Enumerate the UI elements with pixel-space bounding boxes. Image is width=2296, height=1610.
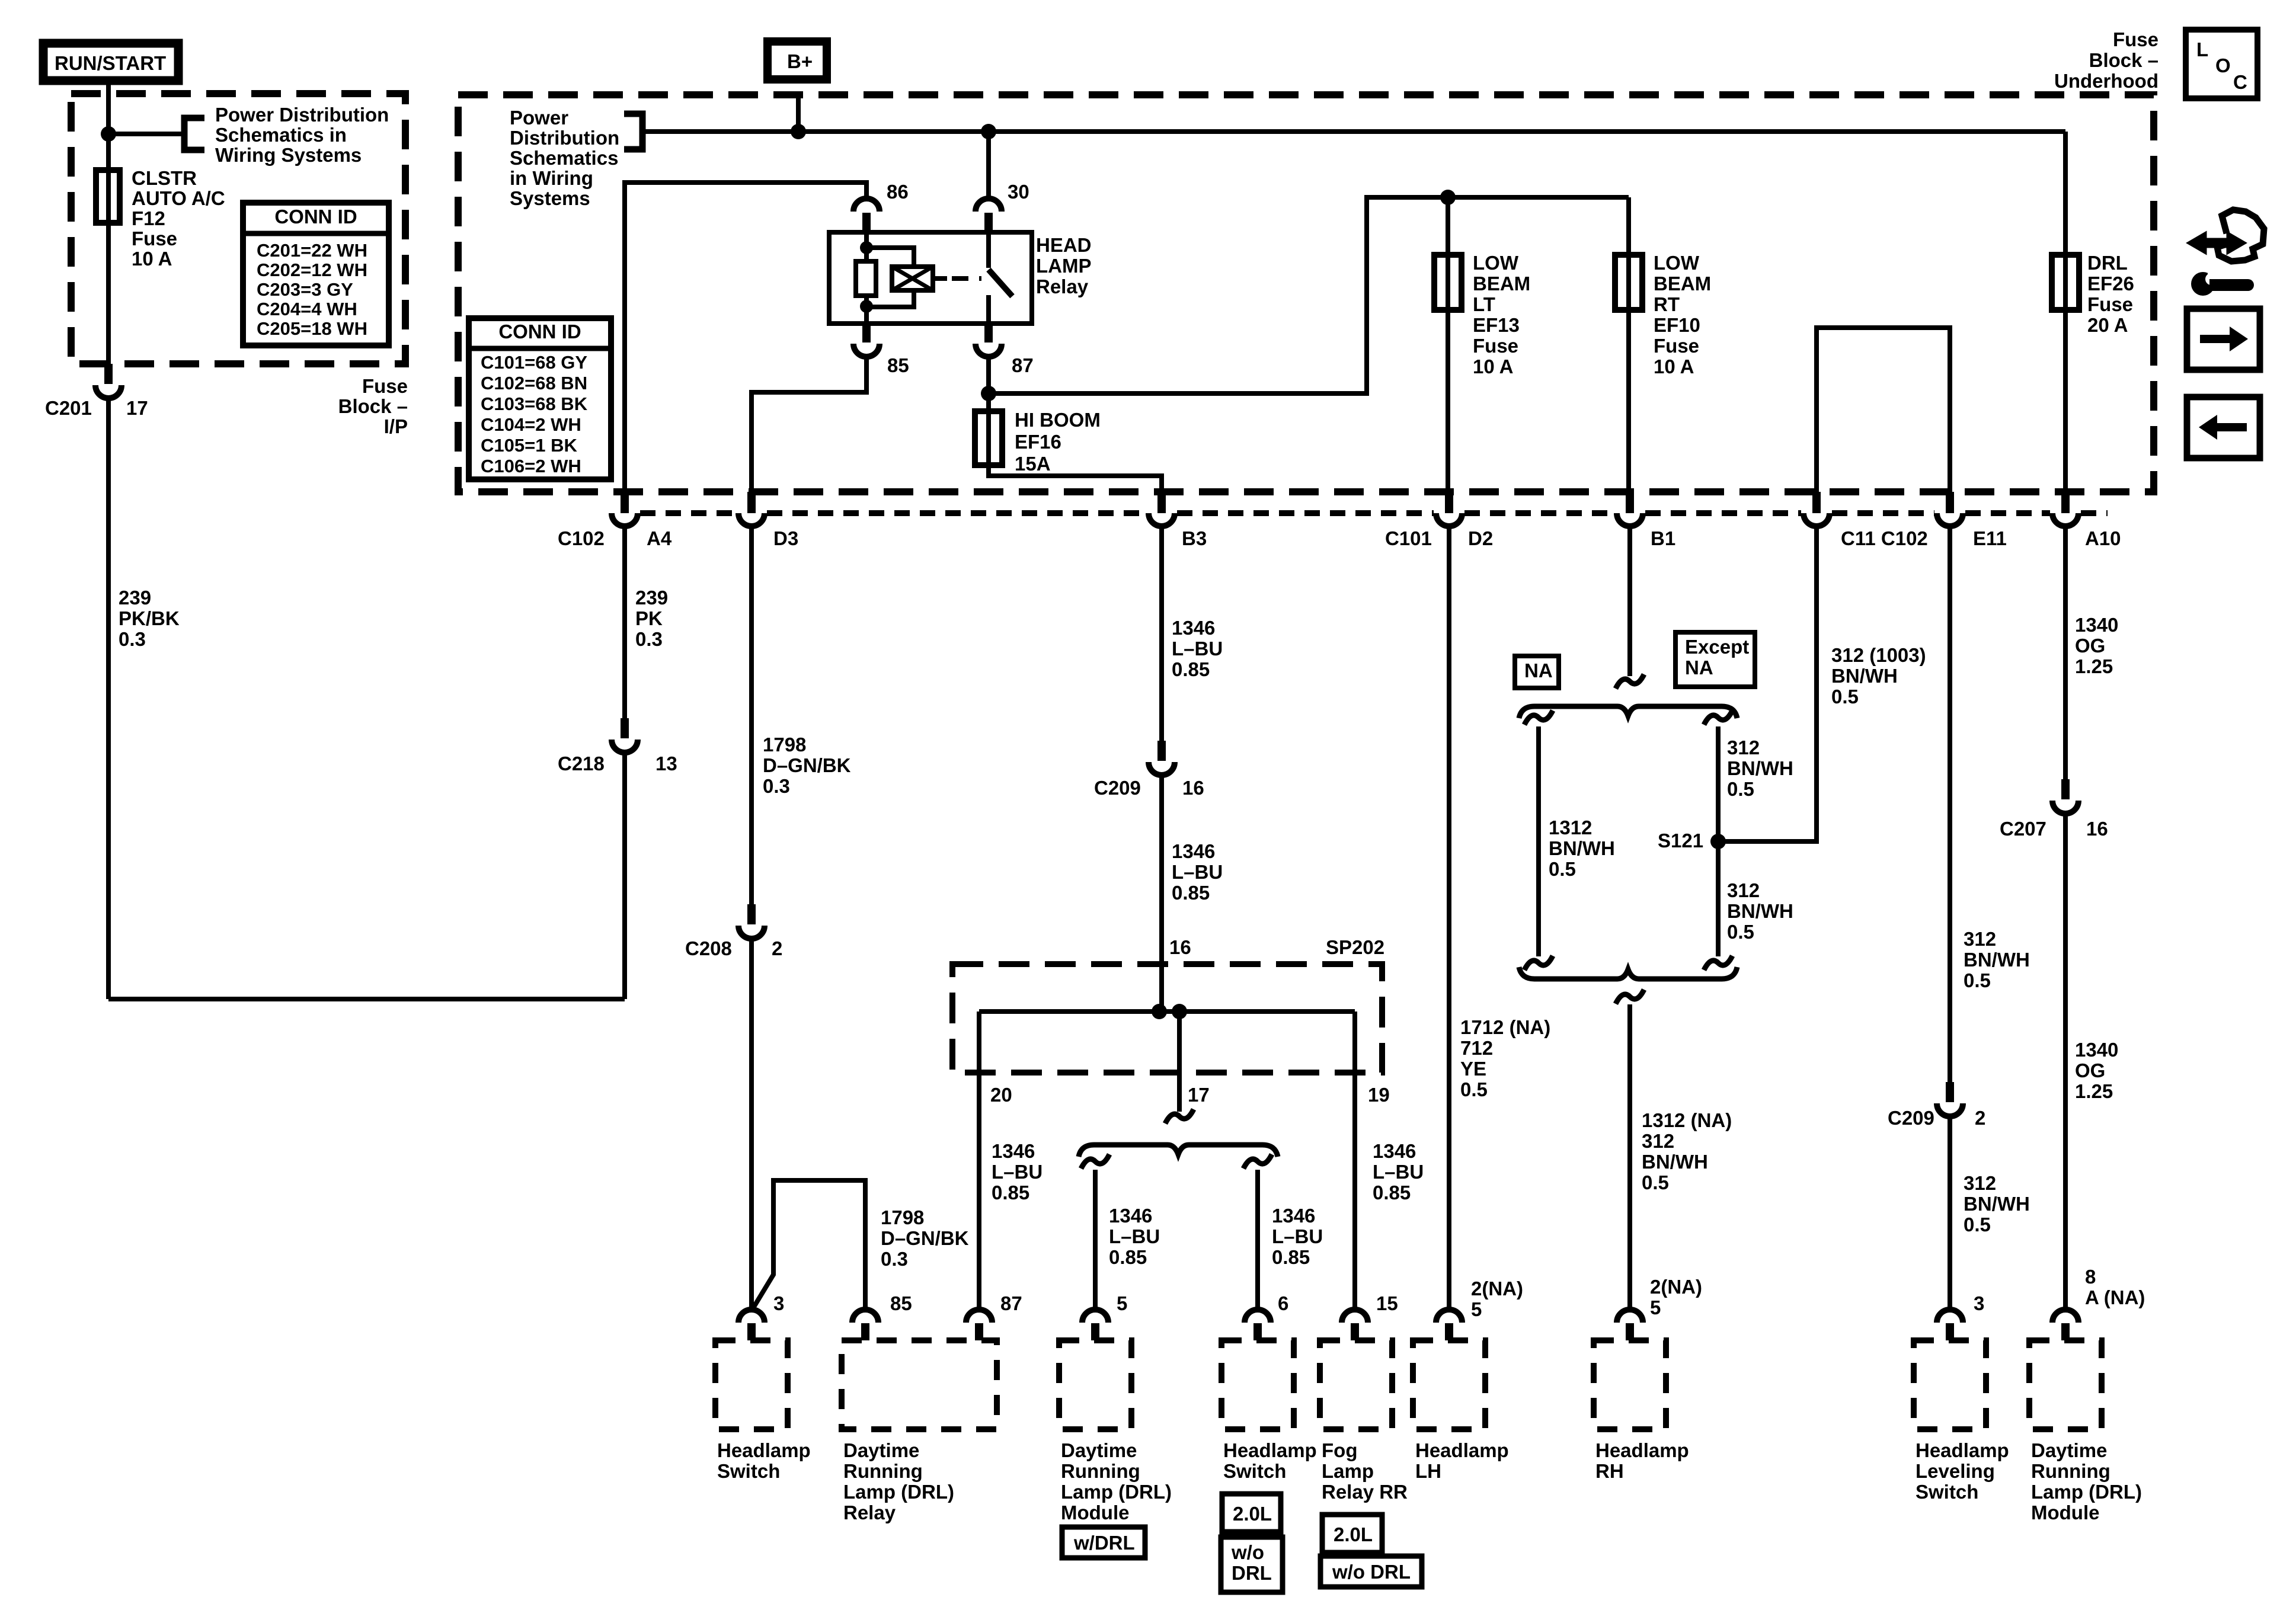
relay pin 86 xyxy=(853,199,880,212)
svg-text:10 A: 10 A xyxy=(132,248,172,270)
svg-text:F12: F12 xyxy=(132,207,165,229)
svg-text:Relay: Relay xyxy=(1036,276,1089,297)
svg-text:Headlamp: Headlamp xyxy=(1916,1439,2009,1461)
svg-text:1.25: 1.25 xyxy=(2075,1080,2113,1102)
svg-text:2: 2 xyxy=(772,937,782,959)
svg-text:0.5: 0.5 xyxy=(1964,969,1991,991)
svg-text:S121: S121 xyxy=(1658,830,1703,852)
svg-text:D2: D2 xyxy=(1468,527,1493,549)
connector fog lamp relay pin 15 xyxy=(1342,1310,1368,1323)
svg-text:PK/BK: PK/BK xyxy=(119,607,180,629)
fuse LOW BEAM LT EF13 10A xyxy=(1446,197,1450,255)
connector C207 pin 16 xyxy=(2061,779,2070,799)
svg-text:C105=1 BK: C105=1 BK xyxy=(481,435,577,456)
svg-text:EF16: EF16 xyxy=(1015,431,1061,453)
svg-text:C218: C218 xyxy=(558,753,605,774)
svg-text:Running: Running xyxy=(1061,1460,1140,1482)
svg-text:C11 C102: C11 C102 xyxy=(1841,527,1928,549)
connector headlamp RH pins 2/5 xyxy=(1617,1310,1643,1323)
svg-text:C208: C208 xyxy=(685,937,732,959)
svg-text:OG: OG xyxy=(2075,635,2105,657)
svg-text:0.85: 0.85 xyxy=(1172,658,1210,680)
svg-text:Module: Module xyxy=(2031,1502,2099,1523)
svg-text:712: 712 xyxy=(1460,1037,1493,1059)
option tag 2.0L (headlamp switch) xyxy=(1222,1494,1281,1532)
component Headlamp Switch 2 box xyxy=(1221,1340,1294,1429)
junction in fuse block I/P xyxy=(101,126,116,142)
svg-text:Fuse: Fuse xyxy=(2113,28,2159,50)
wire B+ feed xyxy=(796,92,801,132)
svg-text:312: 312 xyxy=(1642,1130,1674,1152)
svg-text:1312: 1312 xyxy=(1549,817,1592,838)
svg-text:C103=68 BK: C103=68 BK xyxy=(481,393,588,414)
svg-text:C209: C209 xyxy=(1094,777,1141,799)
svg-text:0.3: 0.3 xyxy=(119,628,146,650)
svg-text:LH: LH xyxy=(1415,1460,1441,1482)
svg-text:0.3: 0.3 xyxy=(635,628,663,650)
connector row harness line xyxy=(640,510,736,516)
svg-text:1346: 1346 xyxy=(1373,1140,1416,1162)
connector pin A10 xyxy=(2061,492,2070,513)
connector leveling switch pin 3 xyxy=(1937,1310,1963,1323)
connector DRL module pin 8/A xyxy=(2052,1310,2078,1323)
fuse F12 CLSTR AUTO A/C 10A xyxy=(106,170,111,223)
svg-text:C106=2 WH: C106=2 WH xyxy=(481,456,581,476)
svg-text:0.5: 0.5 xyxy=(1727,921,1754,943)
svg-text:0.5: 0.5 xyxy=(1549,858,1576,880)
wire 239 PK 0.3 riser xyxy=(622,753,627,999)
svg-text:CONN ID: CONN ID xyxy=(498,321,581,343)
svg-text:B1: B1 xyxy=(1651,527,1675,549)
wire RT fuse to connector B1 xyxy=(1626,310,1631,493)
wire 1798 D-GN/BK lower xyxy=(749,937,754,1311)
svg-text:PK: PK xyxy=(635,607,663,629)
icon arrow left box xyxy=(2187,397,2260,458)
svg-text:C102: C102 xyxy=(558,527,605,549)
svg-text:0.3: 0.3 xyxy=(763,775,790,797)
svg-text:EF10: EF10 xyxy=(1654,314,1700,336)
svg-text:Relay: Relay xyxy=(843,1502,896,1523)
junction SP202 16 xyxy=(1152,1004,1167,1019)
svg-text:L–BU: L–BU xyxy=(1172,638,1223,660)
wire S121 to connector C11 xyxy=(1718,526,1817,841)
svg-text:0.5: 0.5 xyxy=(1642,1172,1669,1193)
connector DRL relay pin 85 xyxy=(852,1310,878,1323)
svg-text:17: 17 xyxy=(1188,1084,1210,1106)
connector C209 pin 16 xyxy=(1157,741,1166,761)
svg-text:BEAM: BEAM xyxy=(1473,273,1530,295)
relay coil parallel loop xyxy=(866,248,914,267)
svg-text:BN/WH: BN/WH xyxy=(1549,837,1615,859)
wire feed to relay pin 30 xyxy=(986,132,991,199)
junction relay 87 output xyxy=(981,386,996,401)
svg-text:L–BU: L–BU xyxy=(1172,861,1223,883)
svg-text:1346: 1346 xyxy=(992,1140,1035,1162)
svg-text:10 A: 10 A xyxy=(1654,356,1694,377)
svg-text:3: 3 xyxy=(1974,1292,1984,1314)
relay actuator dashed link xyxy=(933,276,947,281)
svg-text:E11: E11 xyxy=(1973,527,2007,549)
svg-text:15: 15 xyxy=(1376,1292,1398,1314)
svg-text:C205=18 WH: C205=18 WH xyxy=(257,318,367,339)
svg-text:BN/WH: BN/WH xyxy=(1642,1151,1708,1173)
svg-text:Daytime: Daytime xyxy=(843,1439,919,1461)
svg-text:L–BU: L–BU xyxy=(1272,1225,1323,1247)
component Headlamp RH box xyxy=(1594,1340,1666,1429)
component Headlamp LH box xyxy=(1413,1340,1485,1429)
svg-text:8: 8 xyxy=(2085,1266,2096,1288)
svg-text:15A: 15A xyxy=(1015,453,1051,475)
svg-text:L–BU: L–BU xyxy=(992,1161,1043,1183)
relay switch contact 87 xyxy=(986,295,991,324)
svg-text:Schematics: Schematics xyxy=(510,147,618,169)
svg-text:Module: Module xyxy=(1061,1502,1129,1523)
svg-text:Fuse: Fuse xyxy=(362,375,408,397)
wire 1346 L-BU to DRL module pin5 xyxy=(1093,1170,1098,1311)
relay coil branch xyxy=(864,232,869,261)
svg-text:RH: RH xyxy=(1595,1460,1624,1482)
wire 1346 L-BU to headlamp switch pin6 xyxy=(1255,1170,1260,1311)
wire C218 to connector A4 xyxy=(622,526,627,718)
svg-text:2.0L: 2.0L xyxy=(1233,1503,1272,1525)
svg-text:20: 20 xyxy=(990,1084,1012,1106)
relay switch contact 30 xyxy=(986,232,991,268)
svg-text:D3: D3 xyxy=(773,527,798,549)
svg-text:85: 85 xyxy=(890,1292,912,1314)
svg-text:w/o: w/o xyxy=(1231,1541,1264,1563)
svg-text:30: 30 xyxy=(1008,181,1029,203)
component Fog Lamp Relay RR box xyxy=(1320,1340,1392,1429)
connector headlamp switch pin 6 xyxy=(1245,1310,1271,1323)
svg-text:1346: 1346 xyxy=(1172,840,1215,862)
svg-text:L–BU: L–BU xyxy=(1109,1225,1160,1247)
svg-text:Schematics in: Schematics in xyxy=(215,124,347,146)
svg-text:1798: 1798 xyxy=(881,1206,924,1228)
svg-text:Block –: Block – xyxy=(2089,49,2159,71)
svg-text:1346: 1346 xyxy=(1109,1205,1152,1227)
svg-text:0.85: 0.85 xyxy=(992,1182,1029,1204)
svg-text:17: 17 xyxy=(126,397,148,419)
svg-text:LT: LT xyxy=(1473,293,1495,315)
wire tee to DRL relay 85 xyxy=(752,1180,865,1311)
wire 312 BN/WH to leveling switch xyxy=(1948,1115,1952,1311)
svg-text:0.3: 0.3 xyxy=(881,1248,908,1270)
svg-text:w/o DRL: w/o DRL xyxy=(1332,1561,1411,1583)
svg-text:RT: RT xyxy=(1654,293,1680,315)
wire to power distribution bracket xyxy=(108,132,184,136)
wire DRL fuse to connector A10 xyxy=(2063,310,2068,493)
svg-text:BN/WH: BN/WH xyxy=(1964,1193,2030,1215)
connector headlamp switch pin 3 xyxy=(738,1310,765,1323)
component Headlamp Leveling Switch box xyxy=(1914,1340,1986,1429)
fuse LOW BEAM RT EF10 10A xyxy=(1626,197,1631,255)
svg-text:Fog: Fog xyxy=(1322,1439,1357,1461)
relay pin 87 xyxy=(984,324,993,343)
svg-text:Underhood: Underhood xyxy=(2054,70,2159,92)
svg-text:Distribution: Distribution xyxy=(510,127,619,149)
svg-text:Power Distribution: Power Distribution xyxy=(215,104,389,126)
svg-text:L: L xyxy=(2196,39,2208,60)
component Daytime Running Lamp DRL Module box xyxy=(1059,1340,1131,1429)
svg-text:C203=3 GY: C203=3 GY xyxy=(257,279,353,300)
svg-text:DRL: DRL xyxy=(2087,252,2128,274)
svg-text:86: 86 xyxy=(887,181,909,203)
svg-text:EF26: EF26 xyxy=(2087,273,2134,295)
svg-text:C101=68 GY: C101=68 GY xyxy=(481,352,587,373)
connector C201 pin 17 xyxy=(104,364,113,384)
svg-text:I/P: I/P xyxy=(384,415,408,437)
wire bottom run to C218 leg xyxy=(108,997,625,1001)
junction SP202 17 xyxy=(1172,1004,1187,1019)
wire 87 to low beam feed xyxy=(989,197,1629,393)
relay pin 85 xyxy=(862,324,871,343)
svg-text:0.85: 0.85 xyxy=(1172,882,1210,904)
svg-text:312: 312 xyxy=(1727,737,1760,758)
svg-text:5: 5 xyxy=(1650,1297,1661,1318)
svg-text:C201=22 WH: C201=22 WH xyxy=(257,240,367,261)
connector C101 pin D2 xyxy=(1445,492,1453,513)
wire 1798 D-GN/BK upper xyxy=(749,526,754,905)
fuse block underhood dashed box xyxy=(458,95,2154,492)
relay switch blade xyxy=(989,270,1012,296)
svg-text:16: 16 xyxy=(2086,818,2108,840)
wire feed to relay pin 86 xyxy=(625,183,866,493)
svg-text:Daytime: Daytime xyxy=(2031,1439,2107,1461)
wire 1340 OG to DRL module xyxy=(2063,812,2068,1311)
svg-text:Switch: Switch xyxy=(1916,1481,1978,1503)
svg-text:6: 6 xyxy=(1278,1292,1288,1314)
svg-text:Except: Except xyxy=(1685,636,1749,658)
relay HEAD LAMP box xyxy=(829,232,1032,324)
option brace top xyxy=(1519,706,1737,718)
svg-text:Lamp (DRL): Lamp (DRL) xyxy=(2031,1481,2142,1503)
svg-text:19: 19 xyxy=(1368,1084,1390,1106)
wire 1346 L-BU to splice SP202 xyxy=(1159,774,1164,1012)
svg-text:1340: 1340 xyxy=(2075,1039,2118,1061)
wire 1312 BN/WH NA branch xyxy=(1524,710,1553,725)
svg-text:Switch: Switch xyxy=(717,1460,780,1482)
connector C208 pin 2 xyxy=(747,904,756,924)
wire relay 85 to connector D3 xyxy=(752,357,866,493)
svg-text:Fuse: Fuse xyxy=(132,228,177,249)
svg-text:BN/WH: BN/WH xyxy=(1727,757,1793,779)
svg-text:16: 16 xyxy=(1182,777,1204,799)
svg-text:10 A: 10 A xyxy=(1473,356,1513,377)
power distribution reference bracket (underhood) xyxy=(624,114,642,149)
svg-text:Fuse: Fuse xyxy=(2087,293,2133,315)
svg-text:1346: 1346 xyxy=(1172,617,1215,639)
svg-text:1712 (NA): 1712 (NA) xyxy=(1460,1016,1550,1038)
svg-text:D–GN/BK: D–GN/BK xyxy=(881,1227,969,1249)
wire 312 BN/WH except-NA branch upper xyxy=(1704,710,1732,725)
connector C11 C102 xyxy=(1812,492,1821,513)
svg-text:A4: A4 xyxy=(647,527,672,549)
connector pin B3 xyxy=(1157,492,1166,513)
wire 239 PK/BK 0.3 xyxy=(106,396,111,999)
bridge wire C11 to E11 in fuse block xyxy=(1817,328,1950,492)
connector C209 pin 2 xyxy=(1946,1082,1954,1102)
component Daytime Running Lamp DRL Relay box xyxy=(842,1340,997,1429)
svg-text:0.5: 0.5 xyxy=(1727,778,1754,800)
svg-text:LOW: LOW xyxy=(1473,252,1519,274)
wire LT fuse to connector D2 xyxy=(1446,310,1450,493)
splice pack SP202 dashed box xyxy=(952,964,1382,1073)
svg-text:2(NA): 2(NA) xyxy=(1650,1276,1702,1298)
relay pin 30 xyxy=(976,199,1002,212)
svg-text:RUN/START: RUN/START xyxy=(55,52,166,74)
svg-text:B3: B3 xyxy=(1182,527,1207,549)
power symbol RUN/START xyxy=(43,43,178,81)
icon arrow right box xyxy=(2187,309,2260,370)
svg-text:1.25: 1.25 xyxy=(2075,655,2113,677)
connector C218 pin 13 xyxy=(621,718,629,738)
wire 1340 OG from A10 xyxy=(2063,526,2068,780)
svg-text:C104=2 WH: C104=2 WH xyxy=(481,414,581,435)
svg-text:BN/WH: BN/WH xyxy=(1727,900,1793,922)
svg-text:Relay RR: Relay RR xyxy=(1322,1481,1408,1503)
fuse block I/P dashed box xyxy=(71,94,405,364)
svg-text:Headlamp: Headlamp xyxy=(1415,1439,1509,1461)
svg-text:Headlamp: Headlamp xyxy=(1223,1439,1317,1461)
svg-text:3: 3 xyxy=(773,1292,784,1314)
connector DRL module pin 5 xyxy=(1082,1310,1108,1323)
icon wiring harness with wrench xyxy=(2217,210,2264,261)
svg-text:Systems: Systems xyxy=(510,187,590,209)
svg-text:Wiring Systems: Wiring Systems xyxy=(215,144,362,166)
svg-text:HI BOOM: HI BOOM xyxy=(1015,409,1101,431)
connector headlamp LH pins 2/5 xyxy=(1436,1310,1462,1323)
svg-text:312: 312 xyxy=(1964,928,1996,950)
svg-text:BN/WH: BN/WH xyxy=(1964,949,2030,971)
svg-text:in Wiring: in Wiring xyxy=(510,167,593,189)
wire 312 BN/WH from E11 xyxy=(1948,526,1952,1083)
svg-text:Lamp: Lamp xyxy=(1322,1460,1374,1482)
option brace bottom xyxy=(1519,967,1737,979)
icon LOC box xyxy=(2186,30,2257,98)
svg-text:85: 85 xyxy=(887,354,909,376)
connector DRL relay pin 87 xyxy=(966,1310,992,1323)
svg-text:0.85: 0.85 xyxy=(1272,1246,1310,1268)
svg-text:Block –: Block – xyxy=(338,395,408,417)
svg-text:C207: C207 xyxy=(2000,818,2046,840)
svg-text:C202=12 WH: C202=12 WH xyxy=(257,260,367,280)
wire SP202 pin 19 to fog lamp relay xyxy=(1352,1012,1357,1311)
svg-text:312: 312 xyxy=(1964,1172,1996,1194)
wire B1 to option braces xyxy=(1627,526,1632,676)
svg-text:A10: A10 xyxy=(2085,527,2121,549)
option tag w/o DRL (fog lamp relay) xyxy=(1320,1556,1422,1587)
svg-text:0.5: 0.5 xyxy=(1460,1078,1488,1100)
svg-text:16: 16 xyxy=(1169,936,1191,958)
svg-text:0.5: 0.5 xyxy=(1964,1214,1991,1235)
svg-text:1312 (NA): 1312 (NA) xyxy=(1642,1109,1732,1131)
svg-text:87: 87 xyxy=(1000,1292,1022,1314)
svg-text:2.0L: 2.0L xyxy=(1334,1523,1373,1545)
svg-text:Lamp (DRL): Lamp (DRL) xyxy=(1061,1481,1172,1503)
svg-text:C201: C201 xyxy=(45,397,92,419)
svg-text:5: 5 xyxy=(1117,1292,1127,1314)
wire 1346 L-BU above C209 xyxy=(1159,526,1164,742)
splice bar SP202 xyxy=(979,1009,1355,1014)
svg-text:Headlamp: Headlamp xyxy=(1595,1439,1689,1461)
svg-text:O: O xyxy=(2215,55,2231,76)
svg-text:NA: NA xyxy=(1685,657,1713,678)
svg-text:DRL: DRL xyxy=(1232,1562,1272,1584)
option label NA box xyxy=(1515,656,1559,688)
wire HI BOOM to connector B3 xyxy=(989,465,1162,493)
svg-text:AUTO A/C: AUTO A/C xyxy=(132,187,225,209)
svg-text:239: 239 xyxy=(635,587,668,609)
component Daytime Running Lamp DRL Module 2 box xyxy=(2029,1340,2102,1429)
svg-text:CONN ID: CONN ID xyxy=(274,206,357,228)
component Headlamp Switch box xyxy=(715,1340,788,1429)
svg-text:87: 87 xyxy=(1012,354,1034,376)
svg-text:Fuse: Fuse xyxy=(1473,335,1518,357)
svg-text:1340: 1340 xyxy=(2075,614,2118,636)
svg-text:C: C xyxy=(2233,71,2247,93)
bus wire B+ underhood xyxy=(642,129,2065,134)
relay coil core X box xyxy=(892,267,933,290)
junction B+ bus xyxy=(791,124,806,139)
CONN ID table (underhood) xyxy=(469,318,611,479)
connector C102 pin A4 xyxy=(621,492,629,513)
wire 1712/712 YE to headlamp LH xyxy=(1447,526,1451,1311)
svg-text:YE: YE xyxy=(1460,1058,1486,1080)
svg-text:0.85: 0.85 xyxy=(1109,1246,1147,1268)
option tag w/DRL xyxy=(1062,1527,1145,1558)
svg-text:Fuse: Fuse xyxy=(1654,335,1699,357)
svg-text:239: 239 xyxy=(119,587,151,609)
fuse DRL EF26 20A xyxy=(2063,132,2068,255)
svg-text:C204=4 WH: C204=4 WH xyxy=(257,299,357,319)
connector pin E11 xyxy=(1946,492,1954,513)
svg-text:w/DRL: w/DRL xyxy=(1073,1532,1135,1554)
wire SP202 pin 17 xyxy=(1177,1012,1182,1112)
option tag 2.0L (fog lamp relay) xyxy=(1322,1515,1382,1553)
connector pin D3 xyxy=(747,492,756,513)
fuse HI BOOM EF16 15A xyxy=(975,411,1002,465)
svg-text:312 (1003): 312 (1003) xyxy=(1831,644,1926,666)
svg-text:Daytime: Daytime xyxy=(1061,1439,1137,1461)
junction low beam LT xyxy=(1440,190,1456,205)
svg-text:LOW: LOW xyxy=(1654,252,1700,274)
svg-text:D–GN/BK: D–GN/BK xyxy=(763,754,851,776)
junction relay pin30 feed xyxy=(981,124,996,139)
svg-text:Headlamp: Headlamp xyxy=(717,1439,811,1461)
svg-text:0.85: 0.85 xyxy=(1373,1182,1411,1204)
wire RUN/START to fuse F12 xyxy=(106,81,111,170)
power distribution reference bracket (I/P) xyxy=(184,118,204,150)
svg-text:LAMP: LAMP xyxy=(1036,255,1092,277)
svg-text:Power: Power xyxy=(510,107,568,129)
svg-text:A (NA): A (NA) xyxy=(2085,1286,2145,1308)
svg-text:C102=68 BN: C102=68 BN xyxy=(481,373,587,393)
svg-text:2(NA): 2(NA) xyxy=(1471,1278,1523,1299)
svg-text:OG: OG xyxy=(2075,1060,2105,1081)
svg-text:0.5: 0.5 xyxy=(1831,686,1859,708)
svg-text:SP202: SP202 xyxy=(1326,936,1384,958)
wire fuse F12 to C201 xyxy=(106,223,111,365)
svg-text:5: 5 xyxy=(1471,1298,1482,1320)
svg-text:20 A: 20 A xyxy=(2087,314,2128,336)
connector pin B1 xyxy=(1626,492,1634,513)
brace split pin 17 xyxy=(1165,1109,1194,1124)
svg-text:Running: Running xyxy=(843,1460,923,1482)
power symbol B+ xyxy=(768,41,827,79)
svg-text:CLSTR: CLSTR xyxy=(132,167,197,189)
svg-text:13: 13 xyxy=(655,753,677,774)
svg-text:NA: NA xyxy=(1524,660,1553,681)
